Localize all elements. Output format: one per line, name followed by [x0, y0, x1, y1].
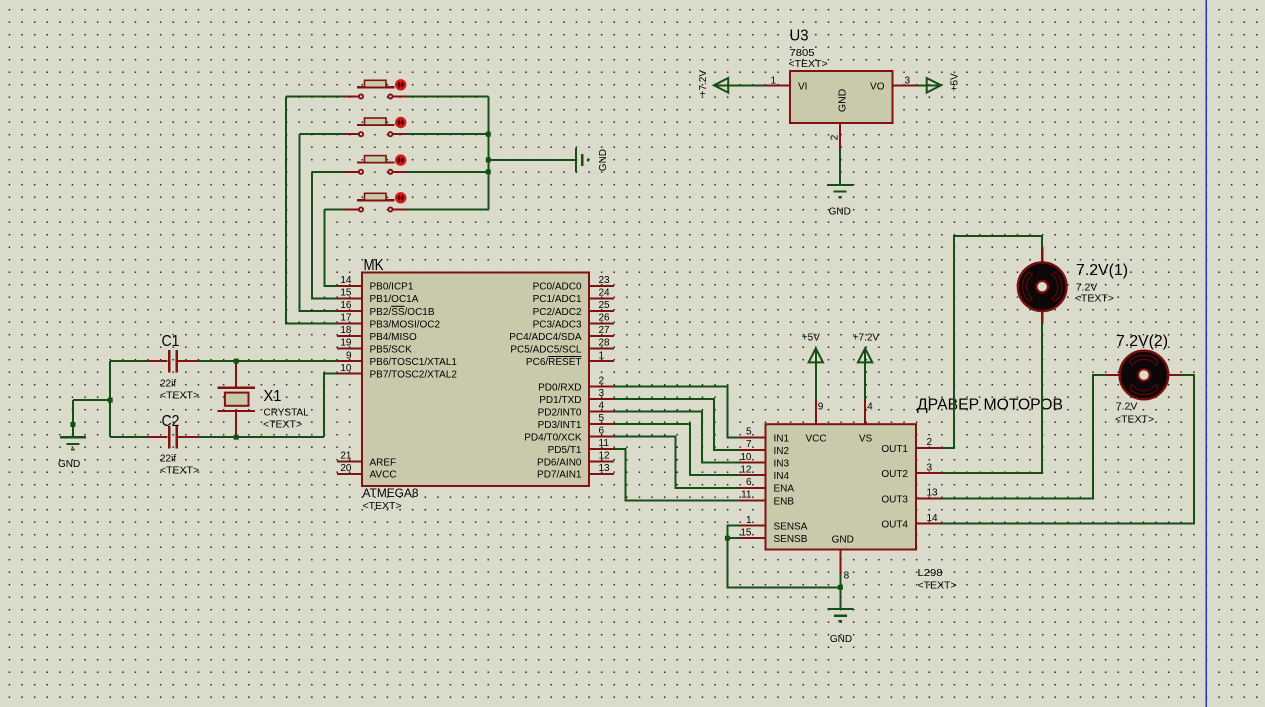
- svg-text:11: 11: [599, 438, 610, 449]
- svg-text:9: 9: [346, 350, 352, 361]
- svg-text:<TEXT>: <TEXT>: [160, 465, 199, 477]
- svg-text:11: 11: [741, 490, 752, 501]
- svg-text:PB0/ICP1: PB0/ICP1: [370, 282, 414, 293]
- svg-text:7: 7: [746, 439, 752, 450]
- wire to +7.2V arrow (L298): [864, 349, 866, 399]
- svg-text:PC2/ADC2: PC2/ADC2: [533, 307, 582, 318]
- pin 12 IN4: [739, 474, 766, 476]
- svg-text:6: 6: [746, 477, 752, 488]
- wire SW3 to PB1: [312, 172, 337, 298]
- pin 11 ENB: [739, 499, 766, 501]
- wire SW3 right: [407, 171, 489, 173]
- junction: [838, 585, 843, 590]
- svg-text:24: 24: [599, 288, 611, 299]
- svg-text:4: 4: [599, 401, 605, 412]
- svg-text:PC5/ADC5/SCL: PC5/ADC5/SCL: [510, 344, 582, 355]
- junction: [725, 536, 730, 541]
- pin 12 PD6/AIN0: [589, 460, 614, 462]
- pin 26 PC3/ADC3: [589, 322, 614, 324]
- svg-text:C2: C2: [162, 413, 180, 430]
- pin 20 AVCC: [337, 473, 362, 475]
- wire SW4 left: [324, 209, 343, 211]
- svg-text:1: 1: [746, 515, 752, 526]
- svg-text:U3: U3: [790, 28, 809, 45]
- wire C1 to PB6: [199, 360, 338, 362]
- svg-text:2: 2: [829, 134, 840, 140]
- svg-text:PC4/ADC4/SDA: PC4/ADC4/SDA: [509, 332, 582, 343]
- svg-text:PD4/T0/XCK: PD4/T0/XCK: [524, 432, 582, 443]
- pin 2 OUT1: [916, 447, 942, 449]
- pin 10 PB7/TOSC2/XTAL2: [337, 373, 362, 375]
- svg-text:C1: C1: [162, 333, 180, 350]
- pin 7 IN2: [739, 449, 766, 451]
- svg-text:GND: GND: [58, 459, 80, 470]
- svg-text:SENSA: SENSA: [774, 522, 808, 533]
- power arrow +7.2V: [714, 78, 728, 93]
- svg-text:18: 18: [340, 325, 352, 336]
- pin 9 VCC: [815, 399, 817, 424]
- motor driver L298 body: [766, 424, 917, 549]
- pin 13 PD7/AIN1: [589, 473, 614, 475]
- svg-text:VS: VS: [859, 434, 873, 445]
- svg-text:14: 14: [927, 513, 939, 524]
- svg-text:PB1/OC1A: PB1/OC1A: [370, 294, 419, 305]
- svg-text:23: 23: [599, 275, 611, 286]
- svg-text:GND: GND: [836, 88, 848, 112]
- svg-text:4: 4: [867, 402, 873, 413]
- svg-text:17: 17: [340, 313, 352, 324]
- svg-text:PD1/TXD: PD1/TXD: [539, 395, 581, 406]
- power arrow +5V: [927, 78, 941, 93]
- svg-text:PC0/ADC0: PC0/ADC0: [533, 282, 582, 293]
- junction: [234, 435, 239, 440]
- pin 25 PC2/ADC2: [589, 310, 614, 312]
- pin 23 PC0/ADC0: [589, 285, 614, 287]
- svg-text:5: 5: [599, 413, 605, 424]
- ground (L298): [827, 609, 853, 621]
- pin 21 AREF: [337, 460, 362, 462]
- pin 3 OUT2: [916, 472, 942, 474]
- svg-text:16: 16: [340, 300, 352, 311]
- svg-text:+5V: +5V: [950, 73, 961, 91]
- svg-text:PC6/RESET: PC6/RESET: [526, 357, 582, 368]
- wire to +5V arrow (L298): [815, 349, 817, 399]
- svg-text:AREF: AREF: [370, 457, 397, 468]
- svg-text:+7.2V: +7.2V: [698, 70, 709, 97]
- motor 7.2V(1): [1018, 262, 1067, 311]
- svg-text:1: 1: [770, 76, 776, 87]
- wire OUT1 to motor1 top: [942, 236, 1042, 448]
- svg-text:PC3/ADC3: PC3/ADC3: [533, 319, 582, 330]
- svg-text:13: 13: [927, 488, 939, 499]
- svg-text:PB4/MISO: PB4/MISO: [370, 332, 417, 343]
- pin 15 SENSB: [739, 537, 766, 539]
- svg-text:9: 9: [818, 402, 824, 413]
- pin 11 PD5/T1: [589, 448, 614, 450]
- svg-text:PB3/MOSI/OC2: PB3/MOSI/OC2: [370, 319, 441, 330]
- svg-text:X1: X1: [264, 388, 282, 405]
- wire motor1 bottom to OUT2: [942, 323, 1042, 473]
- wire SW1 right: [407, 96, 489, 98]
- svg-text:27: 27: [599, 325, 611, 336]
- svg-text:PD6/AIN0: PD6/AIN0: [537, 457, 582, 468]
- svg-text:<TEXT>: <TEXT>: [363, 500, 402, 512]
- ground (buttons): [576, 148, 588, 172]
- svg-text:14: 14: [340, 275, 352, 286]
- svg-text:PB6/TOSC1/XTAL1: PB6/TOSC1/XTAL1: [370, 357, 458, 368]
- pin 17 PB3/MOSI/OC2: [337, 322, 362, 324]
- svg-text:<TEXT>: <TEXT>: [789, 58, 828, 70]
- junction: [486, 132, 491, 137]
- svg-text:ДРАВЕР МОТОРОВ: ДРАВЕР МОТОРОВ: [917, 397, 1063, 414]
- svg-text:ENB: ENB: [774, 496, 795, 507]
- svg-text:10: 10: [740, 452, 752, 463]
- sheet border: [1205, 0, 1207, 707]
- microcontroller U? MK ATMEGA8 body: [362, 273, 589, 487]
- wire SW4 to PB0: [324, 210, 337, 286]
- wire SW2 right: [407, 133, 489, 135]
- svg-text:<TEXT>: <TEXT>: [1075, 293, 1114, 305]
- svg-text:12: 12: [599, 451, 611, 462]
- svg-text:IN4: IN4: [774, 471, 790, 482]
- svg-text:3: 3: [927, 462, 933, 473]
- pin 2 PD0/RXD: [589, 386, 614, 388]
- wire L298 to ground: [839, 575, 841, 609]
- svg-text:MK: MK: [364, 257, 384, 274]
- pin 1 SENSA: [739, 525, 766, 527]
- motor1 bottom pin: [1041, 311, 1043, 323]
- svg-text:OUT1: OUT1: [881, 444, 908, 455]
- wire button common bus: [487, 97, 489, 210]
- svg-text:10: 10: [340, 363, 352, 374]
- svg-text:3: 3: [599, 388, 605, 399]
- svg-text:GND: GND: [598, 149, 609, 171]
- pin 18 PB4/MISO: [337, 335, 362, 337]
- svg-text:20: 20: [340, 463, 352, 474]
- capacitor C1: [147, 350, 199, 373]
- svg-text:PD7/AIN1: PD7/AIN1: [537, 470, 582, 481]
- svg-text:7.2V(2): 7.2V(2): [1116, 333, 1168, 350]
- wire to ground left: [73, 399, 110, 401]
- motor2 left pin: [1106, 374, 1121, 376]
- wire SENSB: [727, 537, 739, 539]
- svg-text:13: 13: [599, 463, 611, 474]
- pin 27 PC4/ADC4/SDA: [589, 335, 614, 337]
- wire SW2 to PB2: [300, 134, 337, 311]
- pin 8 GND: [839, 550, 841, 575]
- wire C2 right: [199, 436, 325, 438]
- wire U3 to ground: [839, 149, 841, 185]
- power arrow +5V (L298): [809, 348, 823, 362]
- wire to +7.2V arrow: [714, 84, 766, 86]
- svg-text:VO: VO: [870, 81, 885, 92]
- svg-text:PB5/SCK: PB5/SCK: [370, 344, 413, 355]
- svg-text:GND: GND: [830, 634, 852, 645]
- wire bus to ground: [488, 159, 575, 161]
- svg-text:IN2: IN2: [774, 446, 790, 457]
- motor 7.2V(2): [1120, 351, 1169, 400]
- pin 16 PB2/: [337, 310, 362, 312]
- wire OUT3 to motor2 left: [942, 375, 1106, 498]
- junction: [70, 422, 75, 427]
- svg-text:L298: L298: [918, 567, 943, 579]
- svg-text:ENA: ENA: [774, 484, 795, 495]
- wire to +5V arrow: [917, 84, 941, 86]
- pin 1 VI: [766, 84, 791, 86]
- svg-text:VI: VI: [798, 81, 807, 92]
- svg-text:5: 5: [746, 427, 752, 438]
- svg-text:15: 15: [340, 288, 352, 299]
- wire SW4 right: [407, 209, 489, 211]
- motor2 right pin: [1168, 374, 1182, 376]
- wire C2 to PB7: [324, 374, 337, 438]
- wire SW1 left: [286, 96, 343, 98]
- svg-text:7.2V(1): 7.2V(1): [1076, 262, 1128, 279]
- junction: [486, 169, 491, 174]
- wire PD1 to IN2: [614, 399, 739, 450]
- pin 28 PC5/ADC5/SCL: [589, 348, 614, 350]
- ground (crystal): [60, 437, 86, 449]
- svg-text:8: 8: [844, 571, 850, 582]
- svg-text:2: 2: [927, 437, 933, 448]
- svg-text:CRYSTAL: CRYSTAL: [264, 408, 310, 419]
- svg-text:+5V: +5V: [802, 333, 820, 344]
- pin 5 IN1: [739, 436, 766, 438]
- wire SW2 left: [300, 133, 344, 135]
- pin 2 GND: [839, 123, 841, 149]
- pin 3 VO: [893, 84, 918, 86]
- wire ground drop: [72, 400, 74, 437]
- svg-text:ATMEGA8: ATMEGA8: [363, 486, 419, 500]
- svg-text:OUT3: OUT3: [881, 494, 908, 505]
- svg-text:26: 26: [599, 313, 611, 324]
- wire PD2 to IN3: [614, 412, 739, 463]
- pin 14 OUT4: [916, 523, 942, 525]
- svg-text:PD2/INT0: PD2/INT0: [538, 407, 582, 418]
- power arrow +7.2V (L298): [858, 348, 872, 362]
- svg-text:+7.2V: +7.2V: [853, 333, 880, 344]
- svg-text:GND: GND: [832, 535, 854, 546]
- svg-text:28: 28: [599, 338, 611, 349]
- junction: [108, 398, 113, 403]
- push button SW1: [344, 79, 407, 98]
- svg-text:22if: 22if: [160, 453, 176, 464]
- svg-text:VCC: VCC: [806, 434, 827, 445]
- crystal X1: [218, 361, 255, 437]
- pin 6 PD4/T0/XCK: [589, 435, 614, 437]
- pin 1 PC6/: [589, 360, 614, 362]
- svg-text:<TEXT>: <TEXT>: [1115, 414, 1154, 426]
- svg-text:12: 12: [740, 464, 752, 475]
- pin 13 OUT3: [916, 497, 942, 499]
- wire C2 left: [110, 436, 147, 438]
- ground (U3): [827, 185, 853, 197]
- pin 10 IN3: [739, 462, 766, 464]
- pin 24 PC1/ADC1: [589, 297, 614, 299]
- wire motor2 right to OUT4: [942, 375, 1194, 524]
- svg-text:IN3: IN3: [774, 459, 790, 470]
- svg-text:1: 1: [599, 350, 605, 361]
- wire SW1 to PB3: [286, 97, 337, 324]
- junction: [486, 157, 491, 162]
- push button SW2: [344, 117, 407, 136]
- pin 3 PD1/TXD: [589, 398, 614, 400]
- svg-text:IN1: IN1: [774, 433, 790, 444]
- wire SENSA/SENSB to ground: [727, 526, 840, 588]
- pin 6 ENA: [739, 487, 766, 489]
- svg-text:21: 21: [340, 451, 352, 462]
- pin 5 PD3/INT1: [589, 423, 614, 425]
- wire left vertical: [109, 361, 111, 437]
- svg-text:PB7/TOSC2/XTAL2: PB7/TOSC2/XTAL2: [370, 370, 458, 381]
- svg-text:25: 25: [599, 300, 611, 311]
- pin 4 VS: [864, 399, 866, 424]
- pin 9 PB6/TOSC1/XTAL1: [337, 360, 362, 362]
- svg-text:OUT2: OUT2: [881, 469, 908, 480]
- svg-text:<TEXT>: <TEXT>: [160, 389, 199, 401]
- wire C1 left: [110, 360, 147, 362]
- wire PD3 to IN4: [614, 424, 739, 475]
- motor1 top pin: [1041, 247, 1043, 262]
- svg-text:<TEXT>: <TEXT>: [918, 580, 957, 592]
- svg-text:7.2V: 7.2V: [1116, 401, 1138, 413]
- svg-text:19: 19: [340, 338, 352, 349]
- pin 19 PB5/SCK: [337, 348, 362, 350]
- wire PD5 to ENB: [614, 449, 739, 501]
- svg-text:AVCC: AVCC: [370, 470, 397, 481]
- svg-text:PB2/SS/OC1B: PB2/SS/OC1B: [370, 307, 435, 318]
- wire SW3 left: [312, 171, 344, 173]
- svg-text:22if: 22if: [160, 378, 176, 389]
- svg-text:PD3/INT1: PD3/INT1: [538, 420, 582, 431]
- svg-text:<TEXT>: <TEXT>: [263, 419, 302, 431]
- pin 14 PB0/ICP1: [337, 285, 362, 287]
- push button SW4: [344, 192, 407, 211]
- push button SW3: [344, 154, 407, 173]
- svg-text:OUT4: OUT4: [881, 520, 908, 531]
- svg-text:3: 3: [905, 76, 911, 87]
- svg-text:SENSB: SENSB: [774, 534, 808, 545]
- wire PD4 to ENA: [614, 436, 739, 487]
- capacitor C2: [147, 426, 199, 449]
- svg-text:PD0/RXD: PD0/RXD: [538, 382, 581, 393]
- svg-text:PC1/ADC1: PC1/ADC1: [533, 294, 582, 305]
- pin 4 PD2/INT0: [589, 411, 614, 413]
- svg-text:6: 6: [599, 426, 605, 437]
- regulator U3 7805 body: [790, 71, 893, 123]
- svg-text:GND: GND: [829, 207, 851, 218]
- svg-text:2: 2: [599, 376, 605, 387]
- svg-text:15: 15: [740, 527, 752, 538]
- wire PD0 to IN1: [614, 387, 739, 438]
- junction: [234, 359, 239, 364]
- pin 15 PB1/OC1A: [337, 297, 362, 299]
- svg-text:PD5/T1: PD5/T1: [548, 445, 582, 456]
